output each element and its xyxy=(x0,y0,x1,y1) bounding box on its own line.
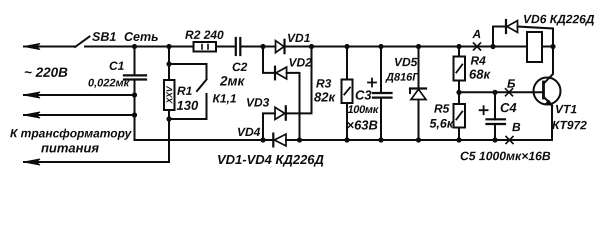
diode VD3 xyxy=(263,113,275,140)
wire: collector xyxy=(544,47,553,84)
node C4 top xyxy=(492,90,497,95)
node R3 bottom xyxy=(344,137,349,142)
node C1 top junction xyxy=(132,44,137,49)
resistor R4 xyxy=(454,57,466,81)
wire: base line xyxy=(459,91,544,93)
node coil left junction xyxy=(490,44,495,49)
svg-text:VD1-VD4 КД226Д: VD1-VD4 КД226Д xyxy=(217,152,325,167)
transistor VT1 xyxy=(534,78,561,105)
svg-text:Б: Б xyxy=(507,77,516,91)
resistor R5 xyxy=(454,104,466,128)
wire: bottom line right part xyxy=(286,139,552,141)
node V x-mark xyxy=(506,137,513,144)
node arrow2 junction xyxy=(132,92,137,97)
wire: coil right xyxy=(542,46,553,48)
wire: VD3 cathode to plus rail xyxy=(286,47,312,114)
diode VD6 xyxy=(505,20,507,33)
svg-text:Сеть: Сеть xyxy=(124,30,159,44)
svg-text:~ 220В: ~ 220В xyxy=(24,65,68,80)
wire: R3 bottom xyxy=(346,103,348,140)
plus C3 xyxy=(368,79,376,87)
svg-text:VD1: VD1 xyxy=(287,31,311,45)
svg-text:VD5: VD5 xyxy=(394,55,418,69)
capacitor C4 xyxy=(487,118,506,120)
diode VD2 xyxy=(274,67,276,80)
svg-text:68к: 68к xyxy=(469,67,491,82)
node R4 top xyxy=(456,44,461,49)
svg-text:0,022мк: 0,022мк xyxy=(88,77,131,89)
diode VD1 xyxy=(276,41,285,53)
resistor R2 xyxy=(194,42,217,52)
svg-text:VD3: VD3 xyxy=(246,95,270,109)
svg-text:КТ972: КТ972 xyxy=(552,118,587,132)
svg-text:×63В: ×63В xyxy=(346,118,377,133)
node A x-mark xyxy=(474,43,481,50)
wire: R4 to R5 xyxy=(458,81,460,105)
svg-text:R1: R1 xyxy=(177,84,193,98)
relay coil K1 xyxy=(527,32,542,62)
svg-text:R3: R3 xyxy=(316,77,332,91)
wire: C3 column xyxy=(380,47,382,93)
wire: R1 bottom column xyxy=(168,110,170,162)
svg-text:К трансформатору: К трансформатору xyxy=(10,126,133,140)
wire: C2 to VD1 xyxy=(242,46,276,48)
wire: arrow3 line xyxy=(24,114,135,116)
node C3 top xyxy=(378,44,383,49)
resistor R1 xyxy=(164,80,175,110)
node K1.1 top junction xyxy=(166,61,171,66)
svg-text:С1: С1 xyxy=(109,59,125,73)
svg-text:VD2: VD2 xyxy=(289,55,313,69)
capacitor C2 xyxy=(235,38,237,55)
wire: VD2 anode to minus rail xyxy=(287,73,300,140)
wire: top line VD1 to coil xyxy=(285,46,528,48)
svg-text:С4: С4 xyxy=(500,100,517,115)
plus C4 xyxy=(480,106,488,114)
svg-text:С3: С3 xyxy=(355,88,372,103)
wire: mains top line from arrow to switch xyxy=(24,46,75,48)
arrow 3 xyxy=(24,112,40,118)
arrow 2 xyxy=(24,92,40,98)
wire: VD6 branch right riser xyxy=(518,27,554,47)
wire: bottom line left part xyxy=(135,80,274,141)
wire: arrow2 line xyxy=(24,94,135,96)
svg-text:VD6 КД226Д: VD6 КД226Д xyxy=(523,12,595,26)
wire: R5 bottom xyxy=(458,128,460,141)
svg-text:5,6к: 5,6к xyxy=(429,117,453,131)
svg-text:R5: R5 xyxy=(434,102,450,116)
capacitor C1 xyxy=(134,47,136,76)
wire: R1 column top xyxy=(168,47,170,81)
svg-text:VT1: VT1 xyxy=(555,102,577,116)
wire: C4 column xyxy=(494,92,496,119)
arrow mains top xyxy=(24,44,40,50)
node R4-R5 junction xyxy=(456,90,461,95)
svg-text:130: 130 xyxy=(176,98,198,113)
svg-text:В: В xyxy=(512,120,521,134)
node R3 top xyxy=(344,44,349,49)
wire: R4 column top xyxy=(458,47,460,57)
svg-text:К1,1: К1,1 xyxy=(212,91,236,105)
wire: R3 column top xyxy=(346,47,348,80)
svg-text:SB1: SB1 xyxy=(92,30,116,44)
node VD5 top xyxy=(416,44,421,49)
wire: VD6 branch left riser xyxy=(493,27,506,47)
switch SB1 blade xyxy=(75,37,90,48)
wire: VD5 column top xyxy=(418,47,420,89)
bridge left rail upper xyxy=(263,47,275,73)
svg-text:R4: R4 xyxy=(471,54,487,68)
node collector junction xyxy=(550,44,555,49)
wire: emitter down xyxy=(551,106,553,141)
wire: top line switch to R2 xyxy=(85,46,194,48)
svg-text:С5 1000мк×16В: С5 1000мк×16В xyxy=(460,149,551,163)
node arrow3 junction xyxy=(132,112,137,117)
svg-text:ХХV: ХХV xyxy=(164,85,174,104)
zener VD5 xyxy=(410,87,426,89)
svg-text:С2: С2 xyxy=(232,60,248,74)
wire: arrow4 line xyxy=(24,161,169,163)
svg-text:2мк: 2мк xyxy=(219,73,246,88)
node R1 top junction xyxy=(166,44,171,49)
diode VD4 xyxy=(272,134,274,147)
svg-text:82к: 82к xyxy=(314,90,336,105)
svg-text:VD4: VD4 xyxy=(237,125,261,139)
svg-text:А: А xyxy=(472,27,482,41)
resistor R3 xyxy=(342,80,353,104)
contact K1.1 xyxy=(169,64,207,79)
svg-text:100мк: 100мк xyxy=(347,104,379,116)
node bridge AC1 xyxy=(260,44,265,49)
node C4 bottom xyxy=(492,137,497,142)
node C3 bottom xyxy=(378,137,383,142)
capacitor C3 xyxy=(373,92,392,94)
node bridge plus xyxy=(309,44,314,49)
node bridge AC2 xyxy=(260,137,265,142)
svg-text:R2 240: R2 240 xyxy=(185,28,224,42)
node R5 bottom xyxy=(456,137,461,142)
svg-text:Д816Г: Д816Г xyxy=(385,72,420,84)
wire: R2 to C2 xyxy=(216,46,234,48)
arrow 4 xyxy=(24,159,40,165)
node bridge minus xyxy=(297,137,302,142)
node VD5 bottom xyxy=(416,137,421,142)
svg-text:питания: питания xyxy=(41,140,99,155)
node B x-mark xyxy=(506,89,513,96)
node K1.1 bottom junction xyxy=(166,116,171,121)
